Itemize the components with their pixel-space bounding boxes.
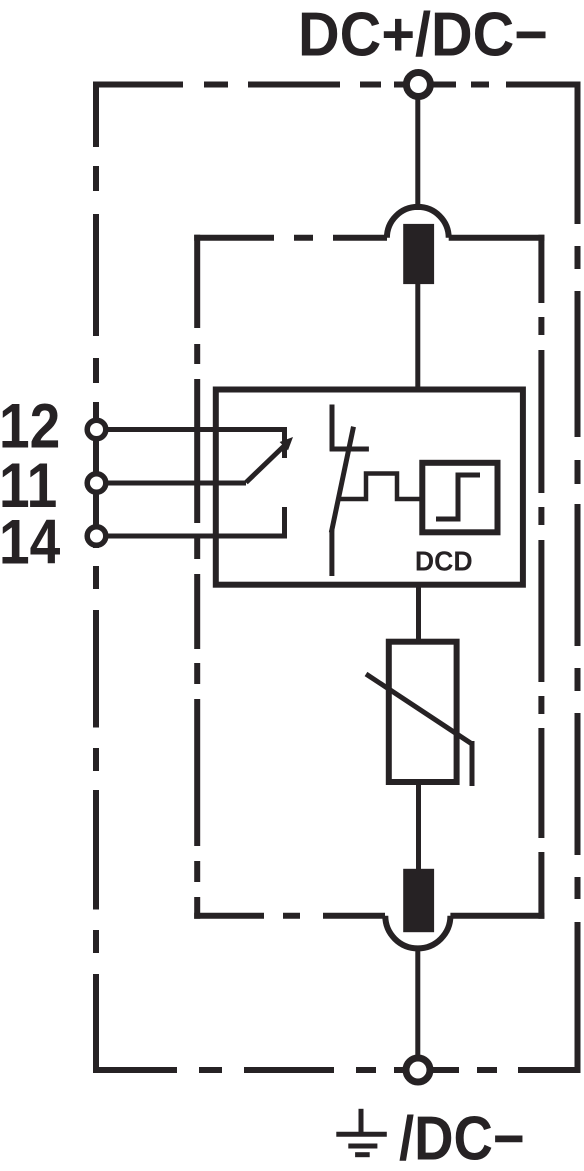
outer enclosure border, dash-dot left edge: [93, 82, 99, 1074]
varistor body rectangle: [389, 642, 457, 782]
wire: bottom plug-in contact to bottom terminal: [415, 946, 420, 1058]
plug-in contact pin (top, filled): [403, 224, 434, 284]
break contact moving blade: [331, 427, 353, 533]
terminal 11 label: [0, 450, 57, 521]
inner protection-module border, dash-dot right edge: [538, 235, 544, 919]
changeover contact moving blade with arrow: [246, 446, 284, 483]
wire: top terminal to plug-in contact: [415, 96, 420, 210]
terminal 12 label: [0, 390, 60, 461]
outer enclosure border, dash-dot right edge: [575, 82, 581, 1074]
wire: varistor to bottom plug-in contact: [416, 782, 421, 870]
terminal 14 (open circle): [87, 527, 106, 546]
break contact lower lead: [329, 530, 334, 576]
wire: DCD box to varistor: [416, 585, 421, 642]
terminal 12 (open circle): [87, 420, 106, 439]
break contact (disconnector) upper lead: [330, 405, 335, 451]
svg-text:14: 14: [0, 506, 60, 577]
earth (ground) symbol: [336, 1109, 387, 1155]
outer enclosure border, dash-dot bottom edge: [93, 1067, 581, 1073]
wire: terminal 11 to contact pivot: [105, 481, 246, 486]
varistor diagonal stroke with tail: [366, 674, 472, 786]
plug-in contact pin (bottom, filled): [403, 869, 434, 932]
trigger (step-function) box: [422, 463, 497, 533]
terminal DC+/DC- (top, open circle): [406, 73, 430, 97]
svg-text:DCD: DCD: [415, 545, 473, 576]
wire: terminal 14 to NO fixed contact: [105, 507, 285, 539]
terminal 11 (open circle): [87, 474, 106, 493]
svg-text:DC+/DC−: DC+/DC−: [298, 0, 548, 69]
outer enclosure border, dash-dot top edge: [93, 82, 581, 88]
pulse waveform wire to trigger box: [339, 474, 422, 500]
plug-in contact socket arc (top): [387, 207, 449, 238]
svg-text:/DC−: /DC−: [399, 1104, 525, 1171]
inner protection-module border, dash-dot left edge: [194, 235, 200, 919]
inner protection-module border, dash-dot top edge: [194, 235, 544, 241]
step-function symbol inside trigger box: [436, 475, 480, 522]
inner protection-module border, dash-dot bottom edge: [194, 913, 544, 919]
label DCD: [415, 545, 473, 576]
terminal 14 label: [0, 506, 60, 577]
label /DC- (bottom terminal name): [399, 1104, 525, 1171]
terminal earth/DC- (bottom, open circle): [406, 1058, 430, 1082]
wire: terminal 12 to NC fixed contact: [105, 427, 285, 458]
plug-in contact socket arc (bottom): [385, 916, 450, 949]
wire: plug-in contact to DCD box: [415, 284, 420, 390]
DCD monitoring-device box: [216, 390, 523, 585]
label DC+/DC- (top terminal name): [298, 0, 548, 69]
break contact fixed T-bar: [330, 447, 369, 452]
